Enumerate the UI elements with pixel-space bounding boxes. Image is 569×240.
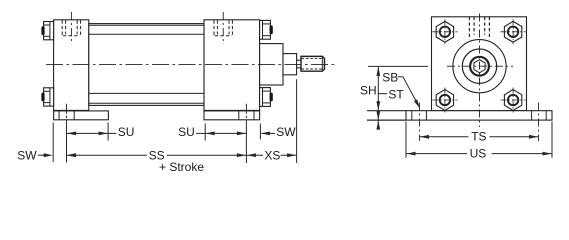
svg-text:SH: SH: [360, 84, 377, 98]
svg-text:XS: XS: [264, 148, 280, 162]
svg-text:ST: ST: [388, 87, 404, 101]
svg-text:SU: SU: [178, 125, 195, 139]
svg-text:SW: SW: [276, 125, 296, 139]
svg-text:US: US: [470, 147, 487, 161]
svg-text:TS: TS: [471, 129, 486, 143]
svg-text:+ Stroke: + Stroke: [159, 160, 204, 174]
svg-text:SB: SB: [382, 71, 398, 85]
svg-text:SU: SU: [118, 125, 135, 139]
svg-text:SW: SW: [17, 148, 37, 162]
